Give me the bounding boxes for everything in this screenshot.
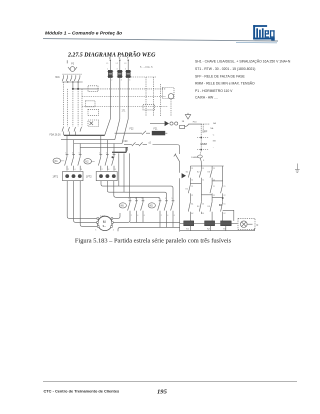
fuse F1 xyxy=(107,70,113,77)
overload relay FT1 xyxy=(53,172,84,181)
relay box B1 xyxy=(86,101,96,107)
svg-text:SFF: SFF xyxy=(202,129,207,133)
overload relay FT2 xyxy=(86,172,117,181)
svg-text:5: 5 xyxy=(171,198,172,200)
svg-text:22: 22 xyxy=(213,195,215,197)
svg-text:SFF - RELE DE FALTA DE FASE: SFF - RELE DE FALTA DE FASE xyxy=(195,74,246,78)
svg-text:5: 5 xyxy=(112,153,113,155)
svg-text:CAIXA - AW ....: CAIXA - AW .... xyxy=(195,96,218,100)
node junction bar xyxy=(62,81,83,82)
svg-text:22: 22 xyxy=(191,195,193,197)
svg-text:21: 21 xyxy=(224,186,226,188)
svg-text:13: 13 xyxy=(191,168,193,170)
ground symbol right xyxy=(295,164,300,173)
pin number labels fuses xyxy=(106,63,130,82)
wire FT1 to motor W xyxy=(80,181,98,227)
svg-text:3: 3 xyxy=(106,153,107,155)
svg-text:195: 195 xyxy=(157,389,168,396)
svg-text:P1 - HORIMETRO 110 V: P1 - HORIMETRO 110 V xyxy=(195,89,233,93)
svg-text:2: 2 xyxy=(111,80,112,82)
svg-text:21: 21 xyxy=(191,186,193,188)
pin number labels K5 xyxy=(158,198,174,217)
wire cross tie xyxy=(130,197,143,199)
svg-text:6: 6 xyxy=(129,80,130,82)
svg-text:61: 61 xyxy=(224,203,226,205)
terminal arrow PE xyxy=(182,173,186,178)
svg-text:22: 22 xyxy=(224,195,226,197)
wire bottom tie 1 xyxy=(112,214,143,223)
svg-text:L2: L2 xyxy=(116,63,118,65)
relay box K4 xyxy=(143,104,155,110)
contactor K1 coil symbol label xyxy=(53,158,65,163)
svg-text:2: 2 xyxy=(131,215,132,217)
wire step bus 4 xyxy=(80,147,128,150)
svg-text:RMM: RMM xyxy=(201,142,208,146)
wire coil links xyxy=(180,222,238,224)
coil K2 xyxy=(205,221,215,231)
contactor K2 coil symbol label xyxy=(84,159,95,164)
svg-text:4: 4 xyxy=(121,80,122,82)
coil K3 xyxy=(221,221,232,231)
wire block drops xyxy=(119,153,130,197)
coil K1 xyxy=(184,221,194,231)
contactor K5 contacts xyxy=(158,200,175,214)
svg-text:62: 62 xyxy=(224,213,226,215)
svg-text:R: R xyxy=(109,57,111,60)
relay box A1 xyxy=(163,88,175,100)
svg-text:1: 1 xyxy=(128,198,129,200)
svg-text:Figura 5.183 – Partida estrela: Figura 5.183 – Partida estrela série par… xyxy=(75,237,232,244)
wire step bus 3 xyxy=(74,143,122,145)
svg-text:M: M xyxy=(103,220,106,224)
pin number labels ladder xyxy=(191,168,225,215)
svg-text:1: 1 xyxy=(158,198,159,200)
wire coil bottom rail xyxy=(180,226,255,231)
pilot lamp P1 xyxy=(238,218,259,229)
svg-text:CTC - Centro de Treinamento de: CTC - Centro de Treinamento de Clientes xyxy=(44,389,120,394)
svg-text:5: 5 xyxy=(141,198,142,200)
wire bottom tie 2 xyxy=(160,214,173,228)
relay box B2 xyxy=(88,109,99,115)
wire FT2 loop 1 xyxy=(101,181,173,200)
N-rail segment xyxy=(223,210,234,221)
wire dashed drops xyxy=(64,82,82,127)
plug X1 xyxy=(150,121,178,126)
line tap F22 xyxy=(115,128,150,134)
svg-text:3: 3 xyxy=(72,153,73,155)
svg-text:1: 1 xyxy=(107,68,108,70)
svg-text:A1: A1 xyxy=(191,202,193,205)
svg-text:43: 43 xyxy=(202,203,204,205)
contactor K1 contacts xyxy=(65,152,82,171)
node S supply entry xyxy=(119,57,121,70)
ladder branch 2 xyxy=(197,166,202,214)
wire FT1 to motor V xyxy=(74,181,98,223)
node junction dot left xyxy=(112,156,114,158)
header text xyxy=(45,31,122,37)
svg-text:21: 21 xyxy=(213,186,215,188)
svg-text:4: 4 xyxy=(108,169,109,171)
svg-text:3: 3 xyxy=(135,198,136,200)
relay box B0 xyxy=(88,86,98,92)
svg-text:N: N xyxy=(257,224,259,227)
footer rule xyxy=(43,380,297,382)
svg-text:L3: L3 xyxy=(124,63,126,65)
busbar link xyxy=(112,148,126,153)
svg-text:4: 4 xyxy=(74,169,75,171)
contactor K2 contacts xyxy=(98,152,115,171)
wire drops to K2 xyxy=(101,135,114,152)
main bus bar xyxy=(64,134,105,136)
wire ladder top rail xyxy=(190,165,223,167)
wire FT1 to motor U xyxy=(67,181,98,219)
svg-text:4: 4 xyxy=(137,215,138,217)
svg-text:5: 5 xyxy=(125,68,126,70)
svg-text:3: 3 xyxy=(117,68,118,70)
contact marks above bus xyxy=(62,127,82,135)
svg-text:5 . – FIG. 5: 5 . – FIG. 5 xyxy=(140,66,153,69)
wire FT2 loop 3 xyxy=(114,181,160,200)
svg-text:Módulo 1 – Comando e Proteç ão: Módulo 1 – Comando e Proteç ão xyxy=(45,31,122,37)
svg-text:6: 6 xyxy=(144,215,145,217)
svg-text:1: 1 xyxy=(65,153,66,155)
contactor K5 label xyxy=(148,203,155,208)
wire fuse F3 output xyxy=(122,78,128,144)
wire step bus 2 xyxy=(61,139,115,141)
disconnect switch F0 xyxy=(62,60,81,81)
svg-text:6: 6 xyxy=(174,215,175,217)
svg-text:6: 6 xyxy=(81,169,82,171)
svg-text:L1: L1 xyxy=(106,63,108,65)
svg-text:2.27.5 DIAGRAMA PADRÃO WEG: 2.27.5 DIAGRAMA PADRÃO WEG xyxy=(67,51,156,59)
wire dashed mesh xyxy=(82,77,171,116)
switch S0 on control feed xyxy=(174,153,180,173)
svg-text:5: 5 xyxy=(79,153,80,155)
WEG logo xyxy=(253,25,275,40)
motor M1 xyxy=(97,216,114,231)
svg-text:RMM - RELE DE MIN e MAX. TENSÃ: RMM - RELE DE MIN e MAX. TENSÃO xyxy=(195,81,255,86)
pin number labels K1 xyxy=(65,153,82,172)
svg-text:3~: 3~ xyxy=(103,224,107,228)
wire fuse F1 output xyxy=(105,78,111,135)
svg-text:4: 4 xyxy=(167,215,168,217)
wire control left rail xyxy=(179,178,181,231)
svg-text:14: 14 xyxy=(213,179,215,181)
relay contact SFF xyxy=(197,124,215,138)
node T supply entry xyxy=(127,57,129,70)
svg-text:6: 6 xyxy=(115,169,116,171)
svg-text:4: 4 xyxy=(113,229,114,231)
line tap F20 xyxy=(124,141,180,153)
svg-text:2: 2 xyxy=(68,169,69,171)
svg-text:DH0MI: DH0MI xyxy=(191,157,198,159)
header rule xyxy=(43,39,278,41)
svg-text:1FT1: 1FT1 xyxy=(53,176,59,179)
contactor K6 contacts xyxy=(128,200,145,214)
pin number labels K6 xyxy=(128,198,144,217)
ladder branch 3 xyxy=(208,166,213,221)
ladder branch 1 xyxy=(186,166,191,221)
svg-text:13: 13 xyxy=(202,168,204,170)
node R supply entry xyxy=(109,57,111,70)
svg-text:1: 1 xyxy=(99,153,100,155)
logo underline xyxy=(236,41,277,43)
wire ladder ties xyxy=(190,181,222,198)
node double junction xyxy=(72,82,98,90)
svg-text:2: 2 xyxy=(102,169,103,171)
wire motor right top xyxy=(113,213,121,218)
svg-text:2: 2 xyxy=(161,215,162,217)
contactor K6 label xyxy=(119,203,126,208)
svg-text:A2: A2 xyxy=(191,212,193,215)
relay contact RMM xyxy=(197,138,216,150)
wire drops to K1 xyxy=(67,135,80,152)
svg-text:6: 6 xyxy=(95,229,96,231)
wire fuse F2 output xyxy=(115,78,120,140)
ladder branch 4 xyxy=(219,166,224,221)
svg-text:44: 44 xyxy=(202,213,204,215)
svg-text:14: 14 xyxy=(202,179,204,181)
control fuse F10 xyxy=(180,113,217,131)
fuse F2 xyxy=(117,70,123,77)
terminal labels motor xyxy=(95,229,114,231)
svg-text:1FT2: 1FT2 xyxy=(86,176,92,179)
wire bottom bus A xyxy=(130,221,180,223)
pin number labels K2 xyxy=(99,153,116,172)
reactor F21 xyxy=(152,128,168,135)
relay box B3 xyxy=(88,120,99,127)
svg-text:SH1 - CHAVE LIGA/DESL. + SINAL: SH1 - CHAVE LIGA/DESL. + SINALIZAÇÃO 16A… xyxy=(195,58,291,63)
svg-text:6M1: 6M1 xyxy=(55,77,60,79)
svg-text:ST1 - RTW - 30 - 0201 - 15 (18: ST1 - RTW - 30 - 0201 - 15 (1800-8021) xyxy=(195,67,255,71)
svg-text:FDA.26.26: FDA.26.26 xyxy=(50,133,62,136)
svg-text:3: 3 xyxy=(165,198,166,200)
wire FT2 loop 2 xyxy=(107,181,166,200)
legend text block xyxy=(195,58,291,99)
switch SH1 xyxy=(191,150,205,166)
fuse F3 xyxy=(125,70,131,77)
svg-text:13: 13 xyxy=(213,168,215,170)
wire bottom bus B xyxy=(118,227,180,231)
svg-text:14: 14 xyxy=(191,179,193,181)
